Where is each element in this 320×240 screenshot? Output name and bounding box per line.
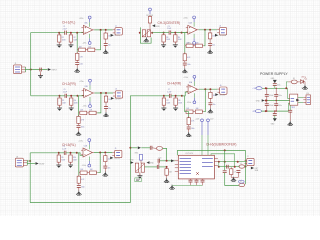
wire L1 to loop [244,166,247,168]
node rail +12 link [265,87,267,89]
op-amp CH-4 [186,85,199,94]
svg-text:+12Va: +12Va [183,18,188,20]
wire CH-5 feedback vertical [77,153,79,173]
svg-text:J1: J1 [15,63,17,65]
wire CH-4 feedback vertical [182,96,185,112]
svg-text:RV2: RV2 [135,153,138,155]
wire +12V rail [262,87,287,89]
svg-text:100n: 100n [187,64,191,66]
wire CH-1 shunt chain [76,50,78,54]
capacitor CH-6 input C [150,146,152,150]
node CH-5 feedback tap [76,152,78,154]
node diode tap [285,87,287,89]
node CH-6 feed tap [129,147,131,149]
svg-text:100: 100 [213,95,216,97]
wire CH-6 pin link [218,162,220,167]
svg-text:C3: C3 [168,26,170,28]
ground CH-6 pot [137,174,142,179]
svg-text:R1: R1 [62,37,64,39]
svg-text:J6: J6 [220,85,222,87]
inductor CH-6 filter L [152,147,163,151]
potentiometer RV1 body [142,30,150,37]
node CH-4 feedback return [204,88,206,90]
wire pot to CH-3 input [152,32,163,34]
net arrow CH-5 output [110,157,113,160]
LED D2 [301,78,307,84]
resistor CH-1 feedback R3 [77,48,87,51]
resistor CH-2 bias R2 [70,96,73,106]
connector CH-2 output [113,91,123,98]
net label GND left pot [130,160,135,164]
capacitor filter C14 lower [265,104,269,106]
trimmer RV2 upper [139,154,142,160]
capacitor CH-2 shunt C [77,126,81,128]
wire C14 lower lead2 [266,106,268,112]
wire CH-1 shunt C to ground [76,65,78,68]
wire bus bottom run [30,202,130,204]
svg-text:J4: J4 [219,25,221,27]
wire CH-2 output R to C [105,104,107,107]
wire CH-3 op-amp output [199,29,217,31]
wire top gnd to rail [274,86,276,89]
capacitor CH-3 output C [208,43,212,45]
node pot left [139,32,141,34]
wire control R to pot [149,25,151,30]
node CH-2 feedback tap [77,95,79,97]
node CH-6 out a [218,161,220,163]
svg-text:-12Va: -12Va [82,43,86,45]
ground CH-3 output [207,49,212,54]
svg-text:4.7: 4.7 [234,171,236,173]
node CH-3 output RC [209,29,211,31]
wire C15 lower lead1 [275,101,277,104]
node CH-1 divider junction [70,32,72,34]
svg-text:100n: 100n [81,187,85,189]
svg-text:100: 100 [108,36,111,38]
pins IC U3 left [175,160,179,162]
svg-text:U3 TL074: U3 TL074 [185,153,193,155]
node bottom cap tap [274,110,275,111]
capacitor CH-4 output C [208,103,212,105]
wire U3 bypass C2 top [196,179,198,180]
wire CH-3 feedback to output [204,30,205,46]
node CH-4 input junction [163,95,165,97]
wire CH-5 +12V to op-amp [88,145,90,150]
ground CH-5 R2 [68,163,73,168]
ground CH-3 R1 [161,43,166,48]
wire CH-5 op-amp output [94,152,112,154]
power +12V CH-3 [193,16,196,22]
node CH-2 feedback return [100,92,102,94]
wire C11 upper lead1 [275,88,277,94]
svg-text:LED1: LED1 [301,76,305,78]
text box pot note [135,178,142,182]
wire C11 upper lead2 [275,96,277,100]
wire CH-4 cap to opamp input [171,92,188,96]
node cap col 0 top [266,88,267,89]
svg-text:+12Va: +12Va [183,77,188,79]
svg-text:100n: 100n [80,64,84,66]
wire CH-2 feedback vertical [78,96,79,113]
wire C15 lower lead2 [275,106,277,112]
svg-text:100n: 100n [278,105,282,107]
svg-text:CH-1(FL): CH-1(FL) [62,21,75,25]
wire CH-6 mid chain [219,166,240,168]
node CH-6 out c [237,161,239,163]
svg-text:2.2uF: 2.2uF [62,148,66,150]
svg-text:U1B: U1B [85,86,88,88]
node CH-6 mid b [234,166,236,168]
wire CH-4 feedback to output [204,89,206,112]
node CH-3 divider junction [174,32,176,34]
svg-text:470uF: 470uF [269,95,274,97]
svg-text:C20: C20 [158,158,161,160]
wire CH-1 -12V to op-amp [89,34,91,39]
connector CH-1 output [113,28,123,35]
resistor CH-4 feedback R3 [185,110,195,113]
wire CH-6 mix link [160,160,175,162]
wire zobel R gnd [231,176,233,177]
capacitor CH-2 output C [104,107,108,109]
wire CH-4 op-amp output [199,88,217,90]
capacitor CH-5 input coupling [64,151,66,155]
ground CH-5 R1 [56,163,61,168]
svg-text:100: 100 [108,158,111,160]
svg-text:+12Va: +12Va [79,81,84,83]
svg-text:-12Va: -12Va [187,102,191,104]
ground regulator cap [288,121,293,126]
ground CH-4 R1 [161,106,166,111]
svg-text:100: 100 [212,36,215,38]
wire CH-1 +12V to op-amp [89,22,91,27]
ground CH-2 R1 [57,106,62,111]
ground CH-4 R2 [173,106,178,111]
capacitor CH-6 loop C [223,171,227,173]
wire trimmer to pot [140,160,142,163]
wire CH-4 output R to C [209,100,211,103]
ground input shield [38,74,43,79]
wire CH-1 input to divider [59,32,64,34]
node CH-1 output RC [105,29,107,31]
ground symbol bottom power [271,118,277,125]
net arrow CH-6 output [251,167,254,170]
capacitor CH-1 input coupling [65,31,67,35]
svg-text:R5: R5 [62,100,64,102]
net arrow CH-3 output [215,34,218,37]
global label CH-6 bottom [239,180,245,183]
node CH-3 feedback tap [181,32,183,34]
node cap col 0 mid [266,100,267,101]
capacitor CH-3 shunt C [183,63,187,65]
ground LED [302,85,307,90]
inductor CH-6 L2 [239,183,245,186]
wire bus right riser [130,96,164,203]
wire U3 bypass C1 top [190,179,192,180]
wire CH-3 -12V to op-amp [193,34,195,39]
wire CH-1 feedback to output [96,30,101,50]
svg-text:J2: J2 [115,26,117,28]
wire CH-3 output R to C [209,41,211,44]
wire CH-4 -12V to op-amp [193,93,195,98]
wire J1 pin joiner [25,67,27,72]
power +12V control [149,8,152,14]
node CH-6 mid a [218,166,220,168]
node CH-6 loop right [245,166,247,168]
svg-text:470uF: 470uF [269,105,274,107]
capacitor U3 bypass C1 [189,180,193,182]
capacitor top gnd C [273,84,277,86]
wire CH-3 input to divider [164,32,170,34]
capacitor filter C10 upper [265,94,269,96]
ground U3 bypass [169,185,174,190]
wire CH-2 feedback to output [97,93,101,113]
power -12V CH-1 [88,38,91,44]
wire CH-3 cap to opamp input [171,32,188,34]
capacitor filter C15 lower [274,104,278,106]
capacitor CH-4 input coupling [169,94,171,98]
svg-text:R2: R2 [74,37,76,39]
svg-text:10n: 10n [213,104,216,106]
capacitor U3 bypass C3 [201,180,205,182]
svg-text:U2B: U2B [84,145,87,147]
net arrow CH-4 output [215,93,218,96]
resistor CH-5 output R [104,154,107,163]
svg-text:POWER SUPPLY: POWER SUPPLY [260,72,288,76]
capacitor U3 bypass C2 [195,180,199,182]
capacitor CH-1 output C [104,44,108,46]
svg-text:OUT-RR: OUT-RR [219,95,226,97]
power -12V U3 [207,119,210,125]
wire J8 stub to label [27,163,35,165]
node J8 riser tap [29,160,31,162]
inductor CH-6 L1 [239,165,245,168]
capacitor input shield C [40,68,42,72]
svg-text:J7: J7 [247,156,249,158]
wire U3 bypass C3 bottom [202,182,204,185]
resistor CH-2 bias R1 [58,96,61,106]
svg-text:10n: 10n [108,45,111,47]
wire CH-1 cap to opamp input [66,32,83,34]
wire U3 bypass C1 bottom [190,182,192,185]
wire CH-3 shunt C to ground [184,65,186,68]
wire CH-2 output C to ground [105,109,107,113]
wire CH-2 feed [31,95,60,97]
node input bus T [30,69,32,71]
resistor CH-4 feedback R4 [194,110,204,113]
global label +12V [252,87,262,90]
power -12V CH-4 [193,98,196,104]
wire CH-2 -12V to op-amp [89,97,91,102]
wire CH-5 output R to C [104,163,106,166]
wire CH-2 shunt chain [78,113,80,117]
wire CH-4 +12V to op-amp [193,81,195,86]
svg-text:-12Va: -12Va [83,106,87,108]
wire CH-6 wiper C out [159,166,167,168]
resistor CH-1 bias R2 [69,33,72,43]
svg-text:2.2uF: 2.2uF [167,91,171,93]
resistor CH-1 feedback R4 [87,48,97,51]
wire +12V U3 feed [201,135,203,155]
node CH-3 feedback return [204,29,206,31]
resistor CH-5 feedback R4 [88,171,98,174]
node rail gnd link [265,100,267,102]
capacitor CH-6 zobel C2 [236,171,240,173]
svg-text:OUT-FL: OUT-FL [114,35,120,37]
net arrow J8 input [36,162,39,165]
op-amp IC U3 [178,155,214,179]
wire -12V U3 blue drop [207,125,209,135]
power +12V CH-1 [88,16,91,22]
connector CH-3 output [217,28,227,35]
resistor CH-4 bias R2 [174,96,177,106]
svg-text:R9: R9 [61,157,63,159]
resistor CH-4 output R [209,91,212,100]
node CH-4 feedback tap [181,95,183,97]
capacitor CH-6 mix C [158,159,160,163]
resistor CH-4 bias R1 [162,96,165,106]
node CH-1 input junction [58,32,60,34]
wire rectifier to J10 b [298,101,304,103]
connector CH-5 output [112,150,122,157]
svg-text:10n: 10n [108,108,111,110]
wire rectifier to J10 a [298,96,304,98]
resistor CH-2 feedback R3 [79,111,89,114]
wire CH-3 shunt chain [184,46,186,54]
svg-text:R3: R3 [166,37,168,39]
svg-text:100: 100 [108,99,111,101]
svg-text:100n: 100n [81,127,85,129]
wire CH-6 mix series link [158,163,160,165]
resistor CH-6 shunt R [165,167,168,177]
wire CH-6 wiper [145,166,158,168]
wire CH-5 shunt chain [78,173,80,177]
wire CH-5 output C to ground [104,168,106,172]
wire C10 upper lead1 [266,88,268,94]
resistor CH-1 output R [104,31,107,40]
power -12V CH-2 [89,102,92,108]
wire CH-6 shunt to gnd [166,177,168,179]
node CH-3 input junction [163,32,165,34]
node pot right [151,32,153,34]
wire CH-5 cap to opamp input [66,153,83,156]
wire U3 top loop [178,150,246,155]
wire CH-1 output R to C [105,41,107,44]
ground CH-1 shunt [75,68,80,73]
wire U3 bypass bus [172,184,203,186]
capacitor CH-2 input coupling [65,94,67,98]
svg-text:C9: C9 [63,146,65,148]
net label GND flag control [152,24,160,28]
wire CH-4 shunt C to ground [188,129,190,132]
capacitor CH-5 output C [103,166,107,168]
capacitor CH-6 wiper C [157,165,159,169]
wire shield C to ground [40,71,42,75]
resistor CH-1 bias R1 [58,33,61,43]
wire +12 rail to rectifier [288,88,290,98]
IC U4 rectifier [290,94,298,105]
svg-text:OUT-FR: OUT-FR [115,98,122,100]
wire CH-4 input to divider [164,95,170,97]
svg-text:R8: R8 [178,100,180,102]
wire J8 to CH-5 row [27,160,30,162]
node CH-5 feedback return [99,152,101,154]
resistor CH-6 zobel R [230,167,233,176]
ground pot [144,37,149,42]
node CH-6 riser join [166,160,168,162]
node CH-1 feedback tap [76,32,78,34]
svg-text:10n: 10n [212,45,215,47]
resistor CH-3 output R [208,31,211,40]
power +12V U3 [201,119,204,125]
op-amp CH-3 [186,25,199,34]
resistor CH-2 output R [104,95,107,104]
wire CH-2 +12V to op-amp [89,85,91,90]
wire CH-6 output [218,161,247,163]
wire CH-2 input to divider [60,95,66,97]
svg-text:C7: C7 [168,89,170,91]
ground CH-1 output [103,49,108,54]
svg-text:J5: J5 [115,148,117,150]
power +12V CH-2 [89,79,92,85]
svg-text:L1: L1 [240,163,242,165]
node CH-5 divider junction [70,152,72,154]
capacitor CH-6 zobel C [227,165,229,169]
svg-text:7812: 7812 [291,107,295,109]
wire CH-6 right loop [245,150,247,184]
resistor CH-1 shunt R5 [76,52,79,62]
svg-text:CH-3(CENTER): CH-3(CENTER) [158,21,181,25]
wire rectifier bottom cap [289,105,291,110]
ground CH-4 shunt [186,132,191,137]
wire zobel C2 gnd [234,172,239,177]
wire CH-4 output C to ground [209,105,211,109]
wire U3 bypass C2 bottom [196,182,198,185]
resistor CH-2 feedback R4 [88,111,98,114]
svg-text:CH-4(RR): CH-4(RR) [167,82,181,86]
resistor CH-2 shunt R5 [77,115,80,125]
svg-text:CH-6(SUBWOOFER): CH-6(SUBWOOFER) [206,142,236,146]
wire CH-5 shunt C to ground [78,187,80,190]
net arrow CH-6 input [138,146,141,149]
wire CH-3 +12V to op-amp [193,22,195,27]
wire CH-6 input feed [130,147,137,149]
wire bus V1 upper segment [31,33,60,96]
svg-text:10n: 10n [108,167,111,169]
wire gnd rail to rectifier [289,100,291,102]
wire CH-3 output C to ground [209,45,211,49]
capacitor CH-5 shunt C [77,186,81,188]
svg-text:C5: C5 [64,89,66,91]
wire J1 to input net [26,69,48,71]
svg-text:GND: GND [256,100,261,102]
wire CH-6 left loop 2 [225,173,239,186]
capacitor bottom gnd C [273,114,277,116]
wire CH-5 feedback to output [98,153,101,173]
svg-text:OUT-RL: OUT-RL [114,158,120,160]
wire C14 lower lead1 [266,101,268,104]
wire U3 bypass C3 top [202,179,204,180]
node CH-2 input junction [59,95,61,97]
svg-text:-12Va: -12Va [82,165,86,167]
net arrow power out [296,99,299,102]
wire U3 inner run [211,154,235,167]
capacitor CH-3 input coupling [169,31,171,35]
global label -12V [252,110,262,114]
pins IC U3 right [214,157,218,159]
ground CH-5 output [103,172,108,177]
wire -12 rail to rectifier [289,103,290,111]
power +12V CH-5 [88,139,91,145]
